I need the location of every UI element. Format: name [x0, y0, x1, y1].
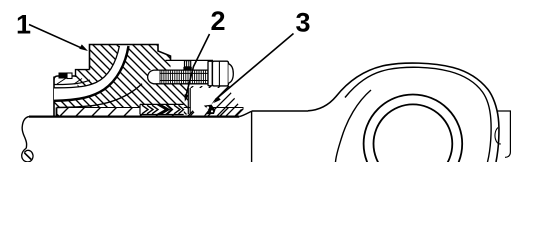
housing top edge [252, 110, 308, 112]
stud outline [148, 70, 209, 84]
shaft left fillet and break squiggle [22, 117, 29, 149]
svg-text:2: 2 [211, 6, 226, 36]
stud shelf line [166, 59, 214, 61]
bore outer circle [364, 95, 463, 194]
boss rim inner line [345, 67, 491, 162]
washer [208, 61, 212, 86]
right tab [497, 111, 511, 157]
chevron packing strokes [142, 105, 184, 114]
housing front vertical edge [251, 111, 253, 162]
bore inner circle [374, 104, 453, 183]
boss outer outline with fillet [308, 63, 499, 162]
stud shank white area [148, 70, 209, 84]
sleeve hatched strip [57, 108, 244, 117]
svg-text:1: 1 [16, 10, 31, 40]
housing hatched region right of box [190, 86, 243, 116]
leader 3 [216, 34, 294, 100]
nut [212, 61, 228, 86]
svg-text:3: 3 [296, 8, 311, 38]
inner rim arc lower-left [336, 90, 372, 162]
gland bell hatched zone [76, 45, 120, 88]
box face lines [188, 88, 190, 114]
gland outline [90, 45, 171, 70]
leader 1 [29, 25, 83, 49]
white gap then dark seal blob (item 3) [196, 106, 204, 116]
left piece hatch tick 2 [74, 79, 82, 85]
leader 2 [185, 34, 209, 98]
elbow channel white band [54, 46, 129, 101]
tab notch arc [495, 128, 501, 144]
nut chamfer cap [228, 64, 233, 84]
packing area white [140, 104, 184, 114]
tab block on stud [185, 61, 191, 67]
white relief band along box face [190, 88, 222, 116]
black seal square on left piece [59, 73, 68, 79]
white ring square next to it [67, 73, 72, 79]
elbow channel inner boundary [54, 46, 119, 88]
left assembly left edge [53, 77, 55, 117]
left ring piece top edge [54, 76, 76, 80]
threads [160, 70, 209, 83]
left piece bottom edge line [54, 80, 90, 85]
inner elbow lower boundary [57, 84, 143, 108]
step up to housing [239, 111, 252, 117]
shaft top line [29, 115, 239, 117]
gland body hatched region [54, 45, 188, 115]
sleeve end cap [56, 108, 58, 118]
black chevron rings [156, 105, 171, 115]
elbow channel outer boundary (thick) [54, 46, 129, 101]
left piece hatch tick [57, 78, 67, 85]
